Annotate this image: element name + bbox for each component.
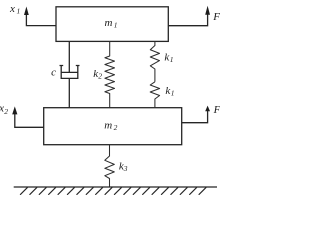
svg-text:1: 1	[114, 21, 118, 30]
svg-text:m: m	[104, 119, 112, 131]
svg-text:F: F	[213, 104, 220, 116]
svg-text:2: 2	[98, 72, 102, 81]
svg-text:F: F	[212, 11, 220, 23]
svg-text:1: 1	[17, 7, 21, 16]
svg-text:x: x	[9, 3, 15, 15]
svg-text:2: 2	[114, 123, 118, 132]
svg-text:3: 3	[123, 164, 128, 173]
svg-text:m: m	[105, 17, 113, 29]
svg-text:2: 2	[4, 107, 8, 116]
svg-text:1: 1	[171, 89, 175, 98]
svg-text:1: 1	[170, 55, 174, 64]
svg-text:c: c	[51, 67, 56, 79]
